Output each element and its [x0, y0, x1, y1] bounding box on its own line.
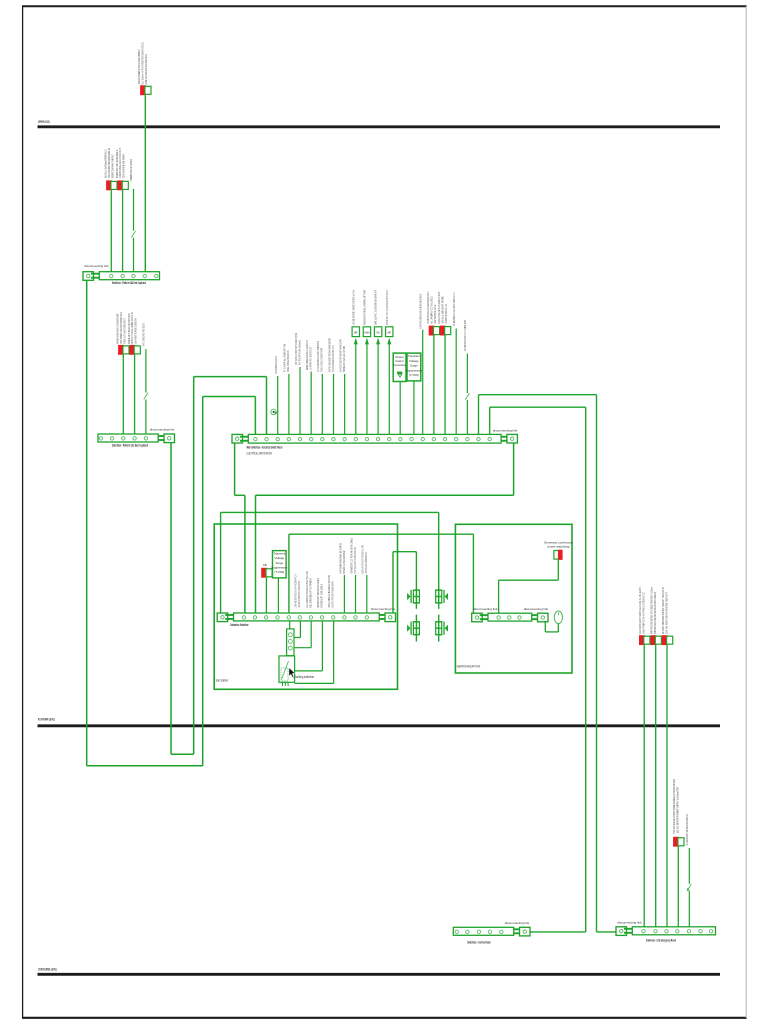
svg-text:Switchbox - Platform 1&2 East: Switchbox - Platform 1&2 East Cupboard: [112, 444, 148, 448]
svg-text:1&2 63A DB FDR POWER SUPPLY 3x: 1&2 63A DB FDR POWER SUPPLY 3x25mm FDR: [676, 787, 680, 834]
svg-text:250A 3&4 SUB 3&4 SWA R: 250A 3&4 SUB 3&4 SWA R: [122, 153, 126, 178]
svg-text:LIGHTING 1&2 LV: LIGHTING 1&2 LV: [274, 356, 278, 374]
svg-text:Sub Station: Sub Station: [216, 679, 229, 683]
svg-text:COMMS 63A LIFT 400A N: COMMS 63A LIFT 400A N: [129, 159, 133, 182]
svg-text:Surge: Surge: [410, 364, 418, 368]
svg-text:disconnecting link: disconnecting link: [371, 607, 396, 611]
svg-text:Transient: Transient: [408, 354, 420, 358]
svg-text:(T.VSS): (T.VSS): [274, 570, 284, 574]
svg-text:4 Earthing switchbar: 4 Earthing switchbar: [293, 675, 315, 679]
svg-text:Surge: Surge: [275, 561, 283, 565]
svg-text:Suppression: Suppression: [271, 565, 287, 569]
svg-text:PVC ROOM POWER 3x25mm D: PVC ROOM POWER 3x25mm D: [297, 340, 301, 365]
svg-text:Correction: Correction: [393, 363, 407, 367]
svg-text:Switchbox - Lifts Emergency Ro: Switchbox - Lifts Emergency Room: [646, 939, 676, 943]
svg-text:PLATFORM METER BOARD LV S: PLATFORM METER BOARD LV S: [331, 346, 335, 373]
svg-text:disconnecting link: disconnecting link: [493, 428, 518, 432]
svg-text:3&4 DB CUPBOARD TRXCOM PV: 3&4 DB CUPBOARD TRXCOM PV: [297, 581, 301, 608]
svg-text:power watchdog: power watchdog: [547, 544, 569, 548]
svg-text:PANEL SPARE BOARD CC: PANEL SPARE BOARD CC: [286, 350, 290, 372]
svg-text:PLATFORM LEVEL: PLATFORM LEVEL: [38, 717, 55, 721]
svg-text:3&4 POWER POWER COMMS SW: 3&4 POWER POWER COMMS SW: [134, 318, 138, 343]
svg-text:ELECTRICAL SWITCHROOM: ELECTRICAL SWITCHROOM: [247, 452, 272, 456]
svg-text:GENERATOR AUXILIARY PLANT: GENERATOR AUXILIARY PLANT: [457, 664, 481, 668]
svg-text:CONCOURSE LEVEL: CONCOURSE LEVEL: [38, 968, 57, 972]
svg-text:BOARD 2x4 63A WAY PUM: BOARD 2x4 63A WAY PUM: [342, 550, 346, 573]
svg-text:SWA 1&2 PVC 1&2 ROOM DB 63A PL: SWA 1&2 PVC 1&2 ROOM DB 63A PLATF: [374, 290, 378, 325]
svg-text:disconnecting link: disconnecting link: [473, 607, 498, 611]
svg-text:Voltage: Voltage: [409, 359, 419, 363]
svg-text:2x4 HV WAY DB HV ROOM 3&4 LIFT: 2x4 HV WAY DB HV ROOM 3&4 LIFT: [664, 592, 668, 634]
svg-text:MF: MF: [354, 332, 358, 335]
svg-text:100A SWA CUPBOARD 3x: 100A SWA CUPBOARD 3x: [364, 552, 368, 574]
svg-text:PVC SWA EAST CUPBOARD TRX: PVC SWA EAST CUPBOARD TRX: [353, 547, 357, 574]
svg-text:disconnecting link: disconnecting link: [617, 920, 642, 924]
svg-text:Voltage: Voltage: [274, 556, 284, 560]
svg-text:XLPE 3&4 SWA WAY ESCALATOR 3x: XLPE 3&4 SWA WAY ESCALATOR 3x: [144, 54, 148, 85]
svg-text:Switchbox - Platform 3&4 East: Switchbox - Platform 3&4 East Cupboard: [112, 281, 146, 285]
svg-text:WAY CUPBOARD FDR ESCAL: WAY CUPBOARD FDR ESCAL: [142, 322, 146, 346]
svg-text:Suppression: Suppression: [406, 368, 422, 372]
svg-text:disconnecting link: disconnecting link: [524, 607, 549, 611]
svg-text:disconnecting link: disconnecting link: [150, 428, 175, 432]
svg-text:Substation Switchbar: Substation Switchbar: [230, 623, 249, 627]
svg-text:Switchbox - Comms Room: Switchbox - Comms Room: [467, 940, 490, 944]
svg-text:PUMP XLPE SWA CUPBOARD R: PUMP XLPE SWA CUPBOARD R: [122, 318, 126, 344]
svg-text:1&2 DB METER COMMS SUPPLY 2x4: 1&2 DB METER COMMS SUPPLY 2x4 2x4: [351, 290, 355, 325]
svg-text:disconnecting link: disconnecting link: [505, 921, 530, 925]
svg-text:(T.VSS): (T.VSS): [409, 373, 419, 377]
svg-text:CABLE CABLE COMMS PUMP: CABLE CABLE COMMS PUMP: [320, 348, 324, 372]
svg-text:CB: CB: [263, 563, 267, 567]
svg-text:SUB DB 250A 250A METER PLATFOR: SUB DB 250A 250A METER PLATFORM 400A LIF: [653, 592, 657, 634]
svg-text:Transient: Transient: [273, 552, 285, 556]
svg-text:RISER 250A WAY SUB PVC: RISER 250A WAY SUB PVC: [110, 153, 114, 178]
svg-text:CABLE PUMP 4C 63A WAY PANEL CU: CABLE PUMP 4C 63A WAY PANEL CUPBOARD CCT: [642, 592, 646, 634]
svg-text:disconnecting link: disconnecting link: [84, 264, 109, 268]
svg-text:MF: MF: [387, 332, 391, 335]
svg-text:LV METER HV 2x4 LIFT SUB No.2: LV METER HV 2x4 LIFT SUB No.2 4: [452, 292, 456, 326]
svg-text:DB CUPBOARD LIFT HV SPARE R: DB CUPBOARD LIFT HV SPARE R: [308, 578, 312, 608]
svg-text:LIGHTING DB ROOM SUB ESCALATOR: LIGHTING DB ROOM SUB ESCALATOR 6: [418, 294, 422, 329]
svg-text:Main Switchbox - Electrical Sw: Main Switchbox - Electrical Switch Room: [247, 446, 283, 450]
svg-text:UPPER LEVEL: UPPER LEVEL: [38, 120, 50, 124]
svg-text:POWER LIFT 100A XLPE 3: POWER LIFT 100A XLPE 3: [319, 584, 323, 608]
svg-text:LV SPARE PVC BOARD CCT: LV SPARE PVC BOARD CCT: [309, 347, 313, 370]
svg-text:ROOM CCT CCT 4C ROOM SUPPLY SW: ROOM CCT CCT 4C ROOM SUPPLY SWA C: [385, 290, 389, 325]
svg-text:SPARE HV 63A 1&2 CCT DB: SPARE HV 63A 1&2 CCT DB: [342, 346, 346, 372]
svg-text:1&2 PVC POWER COMMS MAIN: 1&2 PVC POWER COMMS MAIN: [331, 582, 335, 608]
svg-text:4C XLPE EAST ESCALATOR MAIN 3x: 4C XLPE EAST ESCALATOR MAIN 3x: [685, 814, 689, 846]
svg-text:kWh: kWh: [364, 332, 370, 335]
svg-text:SUPPLY PUMP No.1 M: SUPPLY PUMP No.1 M: [444, 304, 448, 324]
svg-text:ROOM EAST DB No.2 SUPPLY LIFT: ROOM EAST DB No.2 SUPPLY LIFT SUP: [363, 290, 367, 325]
svg-text:LV SUB LV ROOM CCT CABLE WAY: LV SUB LV ROOM CCT CABLE WAY: [463, 320, 467, 351]
